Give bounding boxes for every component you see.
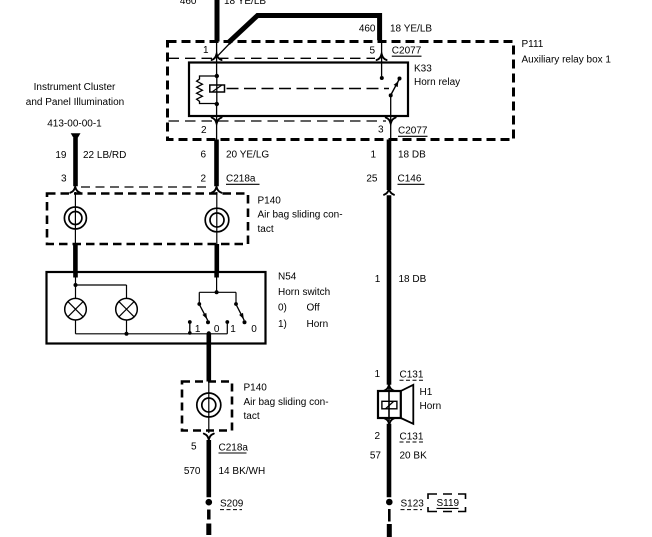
mechanical linkage dashed (227, 88, 390, 90)
node: output junction (207, 331, 211, 335)
wire: thin diagonal into pin 1 (217, 42, 232, 57)
svg-text:1): 1) (278, 319, 287, 330)
svg-text:570: 570 (184, 466, 201, 477)
pin 5 connector arrow (377, 54, 387, 60)
switch arm 2 (237, 305, 245, 320)
wire: 22 LB/RD (73, 138, 78, 186)
svg-text:P111: P111 (522, 39, 544, 50)
connector C2077 top dashed line (169, 57, 376, 59)
connector C2077 label top (392, 46, 422, 57)
svg-text:0: 0 (214, 324, 220, 335)
svg-text:C131: C131 (400, 369, 424, 380)
labels 1 18 DB (370, 150, 426, 161)
svg-text:20 BK: 20 BK (400, 450, 428, 461)
wire: horn switch output (207, 334, 212, 382)
labels 2 C218a (200, 173, 259, 184)
labels 1 C131 (374, 369, 424, 380)
node: relay arm top contact (398, 77, 402, 81)
svg-text:18 DB: 18 DB (398, 150, 426, 161)
svg-text:5: 5 (369, 45, 375, 56)
wire continuation below S123 (388, 509, 391, 522)
svg-text:1: 1 (374, 369, 380, 380)
N54 horn switch box (47, 272, 266, 344)
node: switch feed junction (215, 290, 219, 294)
svg-text:P140: P140 (244, 382, 268, 393)
lamp 1 (illumination) (65, 298, 87, 320)
splice S123 (386, 499, 393, 506)
label P111 (522, 39, 612, 66)
relay coil K33 box symbol (210, 85, 225, 92)
switch arm 1 (200, 305, 208, 320)
wire stubs entering N54 (73, 272, 78, 278)
pin 3 connector arrow (386, 118, 396, 124)
svg-text:57: 57 (370, 450, 382, 461)
wire: 14 BK/WH (207, 440, 212, 497)
lamp bottom wires (75, 320, 77, 334)
label N54 (278, 272, 330, 331)
svg-text:460: 460 (180, 0, 197, 7)
off-page triangle (71, 133, 81, 141)
wire: arm to pin 3 (390, 95, 392, 139)
svg-text:C2077: C2077 (398, 126, 428, 137)
node: coil top junction (215, 74, 219, 78)
connector C131 bottom arrow (384, 418, 394, 424)
pin 5 connector arrow (down) (204, 434, 214, 440)
svg-text:0): 0) (278, 303, 287, 314)
svg-text:K33: K33 (414, 64, 432, 75)
svg-text:Horn: Horn (420, 401, 442, 412)
contact bar 2 node (225, 320, 229, 324)
svg-text:2: 2 (374, 431, 380, 442)
pin 2 connector arrow (212, 118, 222, 124)
labels 570 14 BK/WH (184, 466, 265, 477)
contact bar 1 (189, 322, 191, 334)
wire: 18 DB right column (387, 140, 392, 191)
wire: 20 BK (387, 424, 392, 497)
svg-text:C131: C131 (400, 431, 424, 442)
wire: thin into pin 1 (216, 42, 218, 77)
labels 5 C218a (191, 442, 248, 454)
svg-text:25: 25 (366, 173, 378, 184)
wire through coil (216, 76, 218, 104)
labels 57 20 BK (370, 450, 427, 461)
wire: 20 YE/LG middle column (214, 140, 219, 187)
node: relay arm pivot (389, 93, 393, 97)
svg-text:19: 19 (55, 150, 67, 161)
node: lamp2 bottom (125, 332, 129, 336)
svg-text:C146: C146 (398, 174, 422, 185)
svg-text:5: 5 (191, 442, 197, 453)
coil: sliding contact 2 (197, 393, 221, 417)
svg-text:3: 3 (378, 125, 384, 136)
pin 3 label and C2077 (378, 125, 428, 137)
svg-text:S119: S119 (437, 498, 460, 509)
label K33 horn relay (414, 64, 460, 88)
svg-text:1: 1 (370, 150, 376, 161)
label 460 18 YE/LB at branch (359, 23, 433, 34)
node: lamp junction (74, 283, 78, 287)
svg-text:Auxiliary relay box 1: Auxiliary relay box 1 (522, 54, 612, 65)
connector C218a dashed line (81, 186, 211, 188)
svg-text:Horn: Horn (307, 319, 329, 330)
node: arm 2 tip (243, 320, 247, 324)
wire: 18 DB continues (387, 195, 392, 384)
relay K33 box (189, 63, 408, 117)
wire thin through middle coil (216, 192, 218, 244)
Instrument cluster text (26, 82, 124, 130)
P111 auxiliary relay box (dashed) (168, 42, 514, 140)
wire 460 18 YE/LB feed (cut label at top) (180, 0, 267, 7)
resistor (relay parallel resistor) (197, 76, 217, 104)
lamp 2 (illumination) (116, 298, 138, 320)
svg-text:3: 3 (61, 173, 67, 184)
svg-text:18 YE/LB: 18 YE/LB (390, 23, 432, 34)
svg-text:6: 6 (200, 150, 206, 161)
node: pivot 1 (197, 302, 201, 306)
svg-text:C218a: C218a (219, 442, 249, 453)
P140 air bag sliding contact box 1 (dashed) (47, 194, 248, 245)
svg-text:Horn switch: Horn switch (278, 287, 330, 298)
labels 6 20 YE/LG (200, 150, 269, 161)
pin 3 arrow left (70, 187, 80, 193)
node: pivot 2 (234, 302, 238, 306)
labels 19 22 LB/RD (55, 150, 126, 161)
svg-text:1: 1 (375, 274, 381, 285)
svg-text:22 LB/RD: 22 LB/RD (83, 150, 126, 161)
labels 25 C146 (366, 173, 424, 184)
label P140 (258, 195, 343, 235)
coil: sliding contact middle (205, 208, 229, 232)
svg-text:14 BK/WH: 14 BK/WH (219, 466, 266, 477)
connector C146 arrow (384, 189, 394, 195)
svg-text:2: 2 (200, 173, 206, 184)
switch feed (216, 277, 218, 292)
svg-text:2: 2 (201, 125, 207, 136)
svg-text:tact: tact (258, 224, 274, 235)
svg-text:N54: N54 (278, 272, 297, 283)
splice S209 (206, 499, 213, 506)
svg-text:Off: Off (307, 303, 320, 314)
node: arm 1 tip (206, 320, 210, 324)
coil: sliding contact left (64, 207, 86, 229)
svg-text:0: 0 (251, 324, 257, 335)
horn H1 (378, 385, 413, 424)
svg-text:18 YE/LB: 18 YE/LB (224, 0, 266, 7)
wire: middle to N54 (215, 244, 220, 273)
pin 1 connector arrow (212, 54, 222, 60)
svg-text:1: 1 (203, 45, 209, 56)
svg-text:C2077: C2077 (392, 46, 422, 57)
pin 2 wire thin (216, 104, 218, 140)
splice box S119 (428, 494, 466, 512)
wire thin through coil 2 (208, 382, 210, 434)
connector C131 top arrow (384, 385, 394, 391)
svg-text:S123: S123 (401, 498, 425, 509)
node: relay fixed contact pin5 (380, 76, 384, 80)
wire thin through left coil (74, 192, 76, 244)
svg-text:Instrument Cluster: Instrument Cluster (34, 82, 116, 93)
svg-text:1: 1 (230, 324, 236, 335)
svg-text:20 YE/LG: 20 YE/LG (226, 150, 269, 161)
svg-text:S209: S209 (220, 498, 244, 509)
switch position labels 1 0 1 0 (195, 324, 257, 335)
svg-text:Horn relay: Horn relay (414, 77, 460, 88)
wire: left to N54 (73, 244, 78, 273)
lamp feed wires (75, 277, 77, 299)
label P140 #2 (244, 382, 329, 422)
svg-text:18 DB: 18 DB (399, 274, 427, 285)
labels 1 18 DB lower (375, 274, 427, 285)
bottom bus wire (76, 333, 228, 335)
svg-text:and Panel Illumination: and Panel Illumination (26, 97, 124, 108)
wire: thin pin 5 (381, 40, 383, 76)
svg-text:tact: tact (244, 411, 260, 422)
svg-text:1: 1 (195, 324, 201, 335)
labels 2 C131 (374, 431, 424, 443)
svg-text:P140: P140 (258, 195, 282, 206)
relay switch arm (391, 79, 399, 95)
labels H1 Horn (420, 387, 442, 412)
connector C2077 bottom dashed line (169, 120, 387, 122)
wire: left feed vertical (215, 0, 220, 42)
svg-text:413-00-00-1: 413-00-00-1 (47, 119, 102, 130)
svg-text:Air bag sliding con-: Air bag sliding con- (244, 397, 329, 408)
wire: branch to pin 5 (228, 16, 380, 44)
node: coil bottom junction (215, 102, 219, 106)
svg-text:H1: H1 (420, 387, 433, 398)
wire continuation below S209 (207, 510, 211, 520)
svg-text:460: 460 (359, 23, 376, 34)
svg-text:C218a: C218a (226, 174, 256, 185)
svg-text:Air bag sliding con-: Air bag sliding con- (258, 210, 343, 221)
P140 air bag sliding contact box 2 (dashed) (182, 382, 232, 431)
pin 2 arrow middle (212, 187, 222, 193)
